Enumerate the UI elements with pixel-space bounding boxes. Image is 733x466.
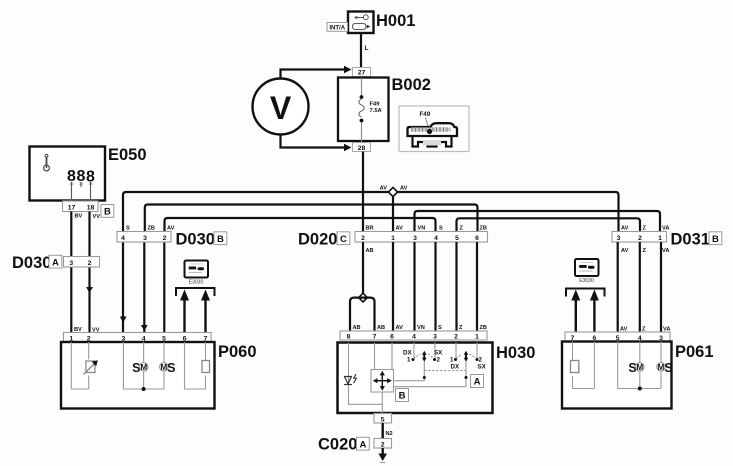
fuse F49 location illustration — [399, 106, 469, 152]
motor M2 in P060 — [160, 361, 176, 375]
bracket to E3030 (right) — [566, 289, 605, 297]
svg-text:2: 2 — [638, 235, 642, 242]
svg-text:Z: Z — [459, 325, 463, 331]
wire D030B pin3 down to P060 pin4 — [143, 242, 145, 333]
ignition switch H001 — [348, 12, 374, 34]
svg-text:C020: C020 — [318, 436, 357, 454]
wire ZB D020 pin6 to H030 pin1 — [476, 242, 478, 331]
svg-text:VN: VN — [417, 325, 425, 331]
wire AV D020 pin1 to H030 pin6 — [392, 242, 394, 331]
wire Z bus: D020 pin5 to D031 pin2 — [457, 218, 641, 231]
svg-text:BR: BR — [366, 226, 374, 232]
pin 28 of B002 — [353, 143, 371, 152]
arrow mark on wire VV — [86, 287, 93, 293]
H030 internal gray wiring — [349, 343, 478, 414]
label A box — [471, 375, 484, 388]
component E3030 icon (right) — [575, 259, 599, 284]
wire voltmeter to pin 28 — [281, 135, 352, 152]
svg-text:2: 2 — [88, 260, 92, 267]
selector arrow 1 (up-down) — [422, 351, 427, 362]
connector strip of H030 — [340, 331, 487, 341]
component E3030 icon (left) — [185, 261, 209, 286]
wire Z D031 pin2 to P061 pin4 — [639, 242, 641, 332]
wire VN bus: D020 pin3 to D031 pin1 — [415, 211, 661, 232]
svg-text:D030: D030 — [12, 254, 51, 272]
svg-text:AV: AV — [396, 226, 404, 232]
svg-text:AV: AV — [396, 325, 404, 331]
svg-text:AV: AV — [400, 186, 408, 192]
svg-text:S: S — [126, 226, 130, 232]
svg-text:D031: D031 — [671, 231, 710, 249]
svg-text:1: 1 — [407, 357, 411, 364]
svg-text:4: 4 — [121, 235, 125, 242]
svg-text:AB: AB — [353, 325, 361, 331]
svg-text:D020: D020 — [298, 231, 337, 249]
svg-text:4: 4 — [412, 334, 416, 341]
voltmeter V — [253, 79, 309, 135]
svg-text:AV: AV — [621, 226, 629, 232]
heater unit P061 — [565, 332, 670, 342]
svg-text:5: 5 — [381, 416, 385, 423]
svg-text:VV: VV — [93, 214, 101, 220]
svg-text:Z: Z — [643, 226, 647, 232]
svg-text:A: A — [52, 257, 59, 268]
connector strip 17 18 B of E050 — [63, 201, 99, 212]
pin 5 of H030 — [374, 414, 392, 424]
motor M2 in P061 — [657, 361, 673, 375]
svg-text:Z: Z — [460, 226, 464, 232]
wire voltmeter to pin 27 — [281, 66, 352, 79]
svg-text:B: B — [712, 234, 719, 245]
svg-text:2: 2 — [437, 357, 441, 364]
arrow mark on wire 4 — [141, 325, 148, 331]
svg-text:S: S — [439, 226, 443, 232]
svg-text:AV: AV — [621, 248, 629, 254]
svg-text:VA: VA — [662, 248, 669, 254]
instrument cluster E050 — [30, 147, 106, 201]
connector D030 B — [117, 226, 175, 243]
svg-text:27: 27 — [358, 70, 366, 77]
pin 27 of B002 — [353, 68, 371, 77]
svg-text:P060: P060 — [218, 343, 257, 361]
svg-text:E3030: E3030 — [189, 280, 204, 286]
svg-text:P061: P061 — [675, 343, 714, 361]
control panel H030 — [338, 343, 493, 414]
svg-text:5: 5 — [455, 235, 459, 242]
svg-text:6: 6 — [390, 334, 394, 341]
wire D030B pin4 down to P060 pin3 — [122, 242, 124, 333]
variable resistor in P060 — [84, 360, 98, 374]
svg-text:2: 2 — [163, 235, 167, 242]
wire S bus: D030B pin2 to D020 pin4 — [165, 218, 436, 232]
fuse F49 7.5A inside B002 — [359, 78, 383, 143]
svg-text:6: 6 — [475, 235, 479, 242]
svg-text:AB: AB — [366, 248, 374, 254]
svg-text:H030: H030 — [496, 344, 535, 362]
svg-text:2: 2 — [361, 235, 365, 242]
switch contacts in H030 — [412, 354, 479, 379]
svg-text:INT/A: INT/A — [329, 25, 345, 31]
connector C020 A pin2 — [374, 439, 392, 449]
wire ZB bus: D030B pin3 to D020 pin6 — [145, 205, 478, 232]
direction control (joystick) box B — [371, 370, 394, 393]
svg-text:7: 7 — [373, 334, 377, 341]
svg-text:M: M — [636, 363, 643, 372]
wire VN D020 pin3 to H030 pin4 — [413, 242, 415, 331]
svg-text:H001: H001 — [376, 12, 415, 30]
svg-text:7.5A: 7.5A — [370, 108, 383, 114]
wire Z D020 pin5 to H030 pin2 — [455, 242, 457, 331]
svg-text:1: 1 — [391, 235, 395, 242]
svg-text:B002: B002 — [392, 76, 431, 94]
wire S D020 pin4 to H030 pin3 — [434, 242, 436, 331]
blower motor M in P060 — [132, 361, 148, 375]
switch labels DX/SX — [403, 350, 487, 371]
thermometer icon in E050 — [44, 154, 50, 171]
svg-text:AV: AV — [380, 186, 388, 192]
arrow wire P060 pin7 to E3030 — [201, 290, 210, 333]
svg-text:SX: SX — [478, 364, 487, 371]
svg-text:AB: AB — [377, 325, 385, 331]
svg-text:N2: N2 — [386, 431, 393, 437]
wire VV: E050 pin18 to P060 pin2 — [88, 212, 90, 333]
svg-text:L: L — [365, 45, 369, 52]
svg-text:1: 1 — [475, 334, 479, 341]
resistor in P060 — [202, 361, 210, 373]
svg-text:D030: D030 — [176, 231, 215, 249]
svg-text:S: S — [664, 361, 672, 375]
svg-text:3: 3 — [69, 260, 73, 267]
svg-text:ZB: ZB — [480, 325, 487, 331]
svg-text:28: 28 — [358, 145, 366, 152]
svg-text:F49: F49 — [420, 111, 431, 118]
svg-text:3: 3 — [617, 235, 621, 242]
svg-text:1: 1 — [658, 235, 662, 242]
label B box — [396, 389, 409, 402]
arrow wire P061 pin6 to E3030 — [590, 290, 599, 333]
wire B002 pin28 down to D020 pin2 — [362, 152, 364, 232]
label INT/A — [327, 23, 348, 32]
svg-text:VA: VA — [662, 226, 669, 232]
blower motor M in P061 — [628, 361, 644, 375]
svg-text:2: 2 — [479, 357, 483, 364]
arrow mark on wire 3 — [120, 317, 127, 323]
arrow wire P061 pin7 to E3030 — [571, 290, 580, 333]
svg-text:B: B — [217, 234, 224, 245]
svg-text:ZB: ZB — [480, 226, 487, 232]
svg-text:2: 2 — [381, 441, 385, 448]
P060 internals — [71, 342, 205, 389]
svg-text:E050: E050 — [108, 146, 147, 164]
svg-text:Z: Z — [643, 248, 647, 254]
svg-text:ZB: ZB — [148, 226, 155, 232]
svg-text:3: 3 — [413, 235, 417, 242]
connector D031 B — [612, 226, 669, 255]
svg-text:B: B — [399, 391, 406, 402]
svg-text:SX: SX — [434, 350, 443, 357]
junction dot in P061 — [638, 387, 642, 391]
bracket to E3030 (left) — [176, 288, 215, 296]
junction dot in P060 — [142, 387, 146, 391]
LED indicator in H030 — [344, 374, 357, 385]
junction box B002 — [338, 78, 389, 142]
svg-text:S: S — [167, 361, 175, 375]
wire labels above H030 — [353, 325, 487, 331]
svg-text:2: 2 — [454, 334, 458, 341]
arrow wire P060 pin6 to E3030 — [180, 290, 189, 333]
svg-text:V: V — [270, 90, 292, 126]
ground — [378, 448, 387, 463]
heater unit P060 — [64, 333, 212, 343]
svg-text:M: M — [140, 363, 147, 372]
gauge elements in E050 — [67, 168, 95, 201]
wire D030B pin2 down to P060 pin5 — [163, 242, 165, 333]
svg-text:1: 1 — [450, 357, 454, 364]
svg-text:B: B — [104, 207, 111, 218]
node AB split diamond — [359, 293, 368, 302]
wire N2 from H030 pin5 — [382, 423, 384, 439]
svg-text:17: 17 — [68, 205, 76, 212]
svg-text:E3030: E3030 — [579, 278, 594, 284]
wire L from H001 to B002 pin 27 — [360, 33, 362, 68]
resistor in P061 — [571, 361, 579, 373]
wire AB to H030 pin8 and pin7 — [350, 298, 375, 331]
svg-text:3: 3 — [433, 334, 437, 341]
svg-text:F49: F49 — [370, 102, 381, 108]
wire AV D031 pin3 to P061 pin5 — [617, 242, 619, 332]
selector arrow 2 (up-down) — [464, 351, 469, 362]
svg-text:S: S — [438, 325, 442, 331]
svg-text:AV: AV — [167, 226, 175, 232]
svg-text:A: A — [359, 439, 366, 450]
wire BV: E050 pin17 to P060 pin1 — [70, 212, 72, 333]
svg-text:3: 3 — [143, 235, 147, 242]
svg-text:VN: VN — [418, 226, 426, 232]
svg-text:BV: BV — [75, 214, 83, 220]
wire AB from D020 pin2 down — [362, 242, 364, 294]
wire AV bus: D030B pin4 to D031 pin3 — [123, 192, 619, 232]
svg-text:18: 18 — [87, 205, 95, 212]
svg-text:8: 8 — [347, 334, 351, 341]
node AV junction diamond — [380, 186, 408, 233]
P061 internals — [573, 342, 662, 389]
svg-text:A: A — [474, 377, 481, 388]
svg-text:4: 4 — [434, 235, 438, 242]
svg-text:DX: DX — [403, 350, 412, 357]
svg-text:C: C — [340, 234, 347, 245]
wire VA D031 pin1 to P061 pin3 — [660, 242, 662, 332]
svg-text:DX: DX — [451, 364, 460, 371]
